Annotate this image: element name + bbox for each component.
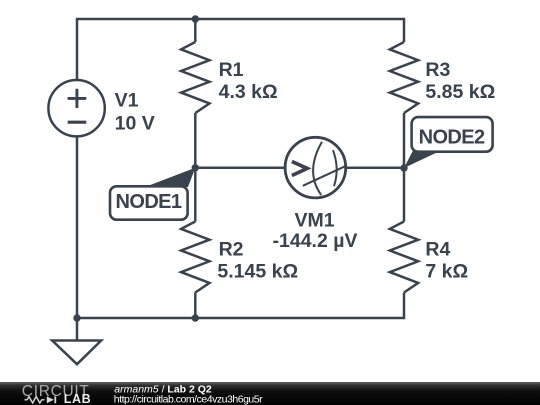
wire R1 bottom lead [194,113,197,168]
wire R2 top lead [194,168,197,222]
label VM1 name [294,210,334,232]
label R4 value 7 kOhm [425,260,468,282]
node junction dot NODE1 [192,164,199,171]
wire R3 bottom lead [403,113,406,168]
footer CircuitLab logo word CIRCUIT [22,383,90,400]
svg-text:5.145 kΩ: 5.145 kΩ [217,260,298,282]
voltmeter VM1 circle [285,137,346,198]
svg-text:LAB: LAB [64,392,92,405]
resistor R3 zigzag [390,42,418,113]
svg-text:NODE2: NODE2 [419,126,485,148]
node junction dot bottom rail / R2 [192,314,199,321]
wire middle right (VM1 to NODE2) [346,167,404,170]
label R1 name [219,59,244,81]
node junction dot top rail / R1 [192,15,199,22]
resistor R1 zigzag [181,42,209,113]
resistor R2 zigzag [181,222,209,293]
node junction dot bottom rail / ground [73,314,80,321]
node NODE1 callout wedge [145,168,195,187]
svg-text:10 V: 10 V [115,112,155,134]
wire R1 top lead [194,19,197,42]
node NODE1 label box [110,186,188,219]
node NODE2 label box [412,117,493,152]
svg-text:VM1: VM1 [294,210,334,232]
footer url text [114,393,263,405]
svg-text:7 kΩ: 7 kΩ [425,260,468,282]
V1 minus sign [68,121,87,124]
svg-text:NODE1: NODE1 [116,191,182,213]
voltmeter VM1 pointer glyph [292,142,345,195]
wire ground lead [76,318,79,341]
svg-text:R1: R1 [219,59,244,81]
V1 plus sign [68,89,87,108]
node junction dot NODE2 [400,164,407,171]
resistor R4 zigzag [390,222,418,293]
label R3 value 5.85 kOhm [425,81,495,103]
footer title text [114,383,212,395]
label R1 value 4.3 kOhm [219,81,278,103]
svg-text:V1: V1 [115,90,139,112]
footer bar [0,382,540,405]
ground symbol triangle [52,341,101,365]
svg-text:5.85 kΩ: 5.85 kΩ [425,81,495,103]
label R2 value 5.145 kOhm [217,260,298,282]
footer CircuitLab logo diode symbol [47,396,56,403]
wire left rail lower + bottom rail + R4 bottom lead [77,136,404,318]
label VM1 value -144.2 uV [273,230,358,252]
wire R2 bottom lead [194,293,197,319]
svg-text:4.3 kΩ: 4.3 kΩ [219,81,278,103]
node NODE2 label text [419,126,485,148]
node NODE2 callout wedge [404,151,441,169]
footer CircuitLab logo resistor squiggle [25,397,45,403]
label V1 name [115,90,139,112]
footer CircuitLab logo word LAB [64,392,92,405]
svg-text:R3: R3 [425,59,450,81]
wire R4 top lead [403,168,406,222]
label R4 name [425,238,450,260]
voltage source V1 circle [48,80,104,136]
svg-text:http://circuitlab.com/ce4vzu3h: http://circuitlab.com/ce4vzu3h6gu5r [114,393,263,405]
label R3 name [425,59,450,81]
label V1 value 10 V [115,112,155,134]
wire middle left (NODE1 to VM1) [195,167,285,170]
node NODE1 label text [116,191,182,213]
label R2 name [219,238,244,260]
svg-text:R4: R4 [425,238,450,260]
wire left rail upper + top rail + R3 top lead [77,19,404,80]
svg-text:-144.2 µV: -144.2 µV [273,230,358,252]
svg-text:R2: R2 [219,238,244,260]
